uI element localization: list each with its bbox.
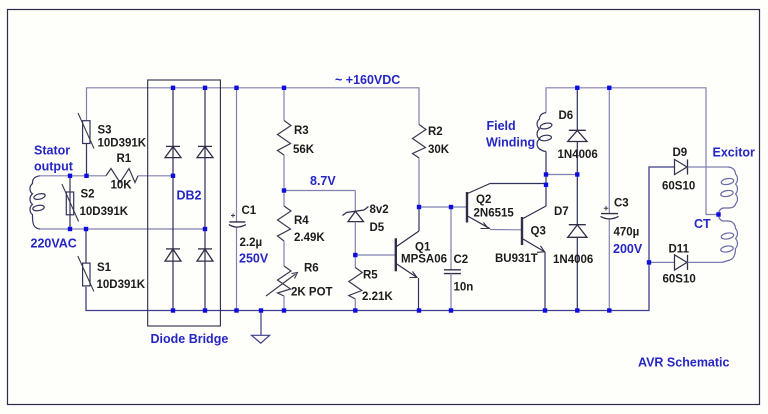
wire R1 to bridge bbox=[138, 175, 173, 177]
svg-text:Q3: Q3 bbox=[531, 226, 546, 238]
svg-text:C1: C1 bbox=[242, 205, 257, 217]
svg-text:220VAC: 220VAC bbox=[31, 237, 77, 251]
svg-text:S2: S2 bbox=[81, 189, 95, 201]
svg-text:2N6515: 2N6515 bbox=[474, 208, 515, 220]
svg-text:~ +160VDC: ~ +160VDC bbox=[335, 73, 400, 87]
resistor R3 bbox=[278, 88, 315, 191]
diode D bridge bottom-left bbox=[165, 249, 181, 261]
diode D bridge bottom-right bbox=[197, 249, 213, 261]
transistor Q2 2N6515 bbox=[467, 184, 546, 230]
transistor Q3 BU931T bbox=[495, 206, 546, 311]
wire winding to D6 bbox=[546, 174, 577, 176]
diode D11 bbox=[649, 244, 722, 286]
transistor Q1 MPSA06 bbox=[355, 207, 447, 311]
svg-text:10n: 10n bbox=[454, 282, 474, 294]
svg-text:R6: R6 bbox=[304, 263, 319, 275]
capacitor C1 bbox=[229, 88, 262, 311]
svg-text:D7: D7 bbox=[554, 206, 569, 218]
svg-text:R3: R3 bbox=[294, 125, 309, 137]
diode D7 bbox=[553, 175, 593, 311]
wire bridge right column bbox=[204, 88, 206, 311]
capacitor C3 bbox=[601, 88, 640, 311]
resistor R2 bbox=[413, 125, 450, 208]
svg-text:2.21K: 2.21K bbox=[362, 291, 393, 303]
svg-text:C3: C3 bbox=[614, 198, 629, 210]
svg-text:Q2: Q2 bbox=[476, 194, 491, 206]
diode bridge box DB2 bbox=[148, 80, 221, 326]
wire bridge left column bbox=[172, 88, 174, 311]
zener diode D5 bbox=[343, 191, 389, 256]
svg-text:AVR Schematic: AVR Schematic bbox=[638, 356, 730, 370]
svg-text:R2: R2 bbox=[428, 126, 443, 138]
svg-text:output: output bbox=[34, 160, 74, 174]
svg-text:8v2: 8v2 bbox=[370, 204, 389, 216]
wire stator top / R1 wire bbox=[40, 175, 106, 177]
svg-text:10D391K: 10D391K bbox=[98, 138, 147, 150]
wire top rail left bbox=[87, 88, 420, 125]
wire S3 vertical bbox=[86, 144, 88, 176]
svg-text:10D391K: 10D391K bbox=[80, 206, 129, 218]
wire stator bottom 220VAC bbox=[40, 228, 205, 230]
svg-text:2K POT: 2K POT bbox=[291, 287, 333, 299]
wire top rail right bbox=[546, 88, 719, 215]
svg-text:CT: CT bbox=[694, 217, 711, 231]
svg-text:8.7V: 8.7V bbox=[310, 174, 336, 188]
svg-text:R1: R1 bbox=[117, 153, 132, 165]
svg-text:56K: 56K bbox=[293, 144, 315, 156]
stator coil L1 bbox=[30, 176, 46, 229]
svg-text:250V: 250V bbox=[239, 252, 269, 266]
wire field winding collector column bbox=[545, 152, 547, 207]
wire Q1 collector node bbox=[419, 206, 466, 208]
svg-text:470µ: 470µ bbox=[614, 227, 640, 239]
ground symbol bbox=[252, 311, 270, 344]
svg-text:D11: D11 bbox=[669, 244, 690, 256]
svg-text:Stator: Stator bbox=[34, 144, 70, 158]
svg-text:Field: Field bbox=[487, 119, 516, 133]
svg-text:1N4006: 1N4006 bbox=[558, 149, 598, 161]
wire S1 vertical bbox=[85, 229, 87, 263]
wire bottom ground rail bbox=[86, 167, 675, 311]
potentiometer R6 bbox=[266, 263, 333, 311]
svg-text:BU931T: BU931T bbox=[495, 253, 538, 265]
svg-text:MPSA06: MPSA06 bbox=[401, 254, 447, 266]
diode D bridge top-right bbox=[197, 146, 213, 157]
field winding coil bbox=[537, 113, 552, 152]
svg-text:10K: 10K bbox=[111, 180, 133, 192]
diode D9 bbox=[662, 147, 728, 193]
resistor R1 bbox=[106, 153, 138, 192]
excitor coil bottom section bbox=[719, 215, 738, 263]
capacitor C2 bbox=[444, 207, 473, 311]
svg-text:S3: S3 bbox=[98, 125, 112, 137]
svg-text:D6: D6 bbox=[559, 110, 574, 122]
svg-text:Excitor: Excitor bbox=[713, 146, 756, 160]
svg-text:R5: R5 bbox=[363, 270, 378, 282]
svg-text:C2: C2 bbox=[454, 254, 469, 266]
svg-text:30K: 30K bbox=[428, 144, 450, 156]
svg-text:Q1: Q1 bbox=[415, 242, 431, 254]
varistor S3 bbox=[78, 113, 147, 150]
svg-text:200V: 200V bbox=[613, 242, 643, 256]
varistor S1 bbox=[78, 256, 146, 292]
svg-text:1N4006: 1N4006 bbox=[553, 254, 593, 266]
svg-text:D9: D9 bbox=[673, 147, 688, 159]
wire 8.7V node bbox=[284, 190, 355, 192]
svg-text:60S10: 60S10 bbox=[662, 181, 695, 193]
svg-text:R4: R4 bbox=[294, 215, 309, 227]
svg-text:Diode Bridge: Diode Bridge bbox=[151, 332, 229, 346]
varistor S2 bbox=[62, 184, 129, 222]
svg-text:60S10: 60S10 bbox=[663, 274, 696, 286]
svg-text:2.49K: 2.49K bbox=[294, 232, 325, 244]
svg-text:D5: D5 bbox=[370, 222, 385, 234]
resistor R4 bbox=[278, 191, 326, 267]
svg-text:Winding: Winding bbox=[486, 136, 535, 150]
diode D bridge top-left bbox=[165, 146, 181, 157]
svg-text:10D391K: 10D391K bbox=[97, 279, 146, 291]
excitor coil top section bbox=[719, 167, 738, 215]
svg-text:2.2µ: 2.2µ bbox=[240, 237, 263, 249]
wire S2 vertical bbox=[69, 176, 71, 229]
resistor R5 bbox=[349, 255, 394, 311]
svg-text:S1: S1 bbox=[97, 262, 112, 274]
svg-text:DB2: DB2 bbox=[177, 189, 202, 203]
diode D6 bbox=[558, 88, 598, 175]
